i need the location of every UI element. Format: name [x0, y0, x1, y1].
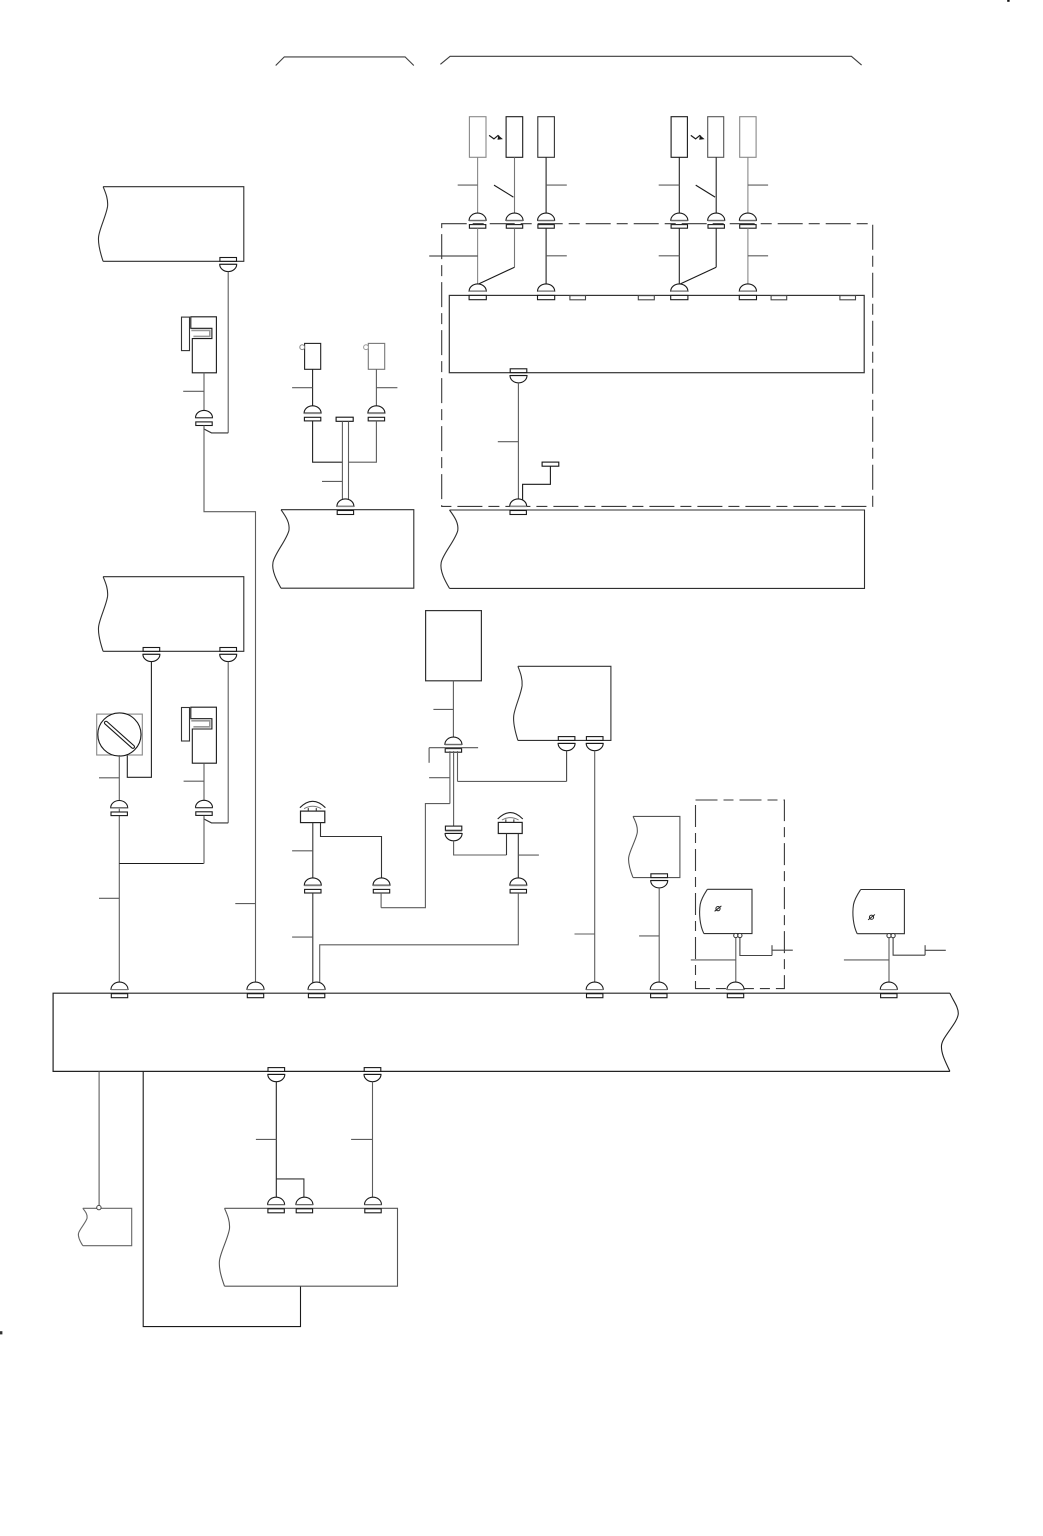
connector (box top edge)	[671, 284, 688, 300]
wire (pin 2)	[453, 751, 455, 826]
wire	[320, 893, 519, 983]
junction tick	[429, 255, 477, 257]
wire	[312, 893, 314, 983]
ground point box G2 (wavy edge)	[857, 890, 904, 934]
component box C (wavy edge)	[518, 666, 611, 740]
wire	[566, 751, 568, 782]
junction tick	[433, 708, 453, 710]
wire (junction)	[119, 863, 203, 865]
wire (fuse lead)	[678, 157, 680, 213]
wire (pin 1)	[449, 751, 451, 804]
wire	[380, 893, 382, 908]
wire	[893, 938, 925, 956]
wire	[506, 834, 508, 856]
terminal eyelets	[887, 934, 895, 938]
connector (in-line)	[196, 800, 213, 815]
connector (box bottom edge)	[558, 737, 575, 751]
connector (box bottom edge)	[143, 648, 160, 662]
junction tick	[429, 777, 450, 779]
terminal tab	[771, 296, 787, 300]
wire	[658, 888, 660, 983]
connector (in-line)	[469, 213, 486, 228]
junction tick	[546, 184, 567, 186]
fuse F3	[538, 117, 555, 158]
intermittent-fault zigzag arrow	[489, 135, 503, 140]
wire (pair)	[341, 421, 343, 499]
junction block 2 dashed outline	[696, 800, 785, 989]
junction tick	[659, 184, 680, 186]
component box G (wavy edge)	[225, 1208, 398, 1286]
wire	[203, 763, 205, 800]
terminal tab	[638, 296, 654, 300]
noise filter NF2	[498, 813, 523, 834]
junction tick	[351, 1138, 372, 1140]
component box B (wavy edge)	[103, 577, 244, 652]
ground mark	[868, 915, 875, 920]
page mark	[0, 1332, 2, 1334]
wire (fuse lead)	[477, 157, 479, 213]
connector (box top edge)	[510, 499, 527, 515]
connector (bus bottom edge)	[364, 1068, 381, 1082]
connector (box top edge)	[296, 1197, 313, 1213]
wire	[517, 834, 519, 878]
ground mark	[715, 906, 722, 911]
junction tick	[376, 387, 397, 389]
page mark top	[1008, 0, 1010, 1]
wire (fuse lead)	[514, 157, 516, 213]
junction tick	[99, 777, 119, 779]
intermittent-fault zigzag arrow	[691, 135, 705, 140]
wire	[452, 681, 454, 737]
connector (in-line)	[445, 737, 462, 752]
connector (box bottom edge)	[510, 369, 527, 383]
wire (fuse lead)	[747, 157, 749, 213]
connector (bus top edge)	[111, 982, 128, 998]
switch blade SW3	[479, 267, 515, 284]
component box A (wavy edge)	[103, 187, 244, 262]
connector (in-line)	[111, 801, 128, 816]
ground point box G1 (wavy edge)	[704, 889, 752, 933]
wire	[321, 823, 382, 878]
component box E (wavy edge)	[633, 816, 680, 877]
connector (box top edge)	[268, 1197, 285, 1213]
connector (box top edge)	[337, 499, 354, 515]
junction tick	[256, 1138, 276, 1140]
junction tick	[748, 184, 768, 186]
junction tick	[546, 255, 567, 257]
connector (box top edge)	[365, 1197, 382, 1213]
fusible link FL1	[182, 317, 217, 373]
junction tick	[235, 903, 255, 905]
wire	[888, 938, 890, 983]
connector (box bottom edge)	[220, 258, 237, 272]
switch blade SW1	[494, 185, 513, 197]
connector (bus bottom edge)	[268, 1068, 285, 1082]
junction tick	[659, 255, 680, 257]
junction tick	[322, 480, 342, 482]
ignition switch contact circle	[98, 713, 141, 756]
connector (bus top edge)	[650, 982, 667, 998]
wire	[313, 421, 343, 462]
connector (bus top edge)	[880, 982, 897, 998]
connector (box bottom edge)	[651, 874, 668, 888]
junction tick	[458, 184, 478, 186]
connector (in-line)	[506, 213, 523, 228]
connector (bus top edge)	[247, 982, 264, 998]
junction block dashed outline	[442, 224, 873, 507]
relay/fuse box body	[449, 295, 864, 372]
junction tick	[498, 441, 519, 443]
connector (in-line, facing down)	[445, 826, 462, 841]
wire (branch)	[276, 1179, 304, 1197]
connector (in-line)	[510, 878, 527, 893]
connector (in-line)	[671, 213, 688, 228]
wire	[143, 1071, 300, 1326]
wire	[275, 1082, 277, 1198]
wire	[735, 938, 737, 983]
junction tick	[292, 850, 313, 852]
connector (in-line)	[708, 213, 725, 228]
connector (in-line)	[304, 878, 321, 893]
wire	[98, 1071, 100, 1205]
wire	[349, 421, 377, 462]
connector (box top edge)	[469, 284, 486, 300]
fuse F5	[708, 117, 724, 158]
junction tick	[844, 959, 889, 961]
connector (in-line)	[368, 406, 385, 421]
connector (box bottom edge)	[586, 737, 603, 751]
connector (in-line)	[538, 213, 555, 228]
connector (in-line)	[304, 406, 321, 421]
wire	[381, 804, 450, 908]
junction tick	[748, 255, 768, 257]
junction tick	[691, 959, 736, 961]
wire	[372, 1082, 374, 1198]
connector (in-line)	[196, 410, 213, 425]
wire	[545, 228, 547, 284]
wire	[517, 383, 519, 499]
fuse F6	[740, 117, 756, 158]
wire (pin 3)	[457, 751, 459, 781]
connector (bus top edge)	[586, 982, 603, 998]
wire	[454, 841, 507, 855]
wire	[514, 228, 516, 267]
wire	[477, 228, 479, 284]
noise filter NF1	[300, 801, 326, 822]
junction tick	[518, 854, 539, 856]
terminal eyelet	[97, 1205, 101, 1209]
harness group brace (left)	[276, 57, 414, 66]
connector (box top edge)	[739, 284, 756, 300]
shield stub	[429, 748, 478, 763]
terminal bar	[542, 462, 559, 466]
stub terminal	[925, 945, 946, 955]
component box H (wavy edge)	[281, 510, 414, 589]
connector (box top edge)	[538, 284, 555, 300]
junction tick	[292, 936, 313, 938]
junction tick	[184, 780, 204, 782]
wire	[203, 373, 205, 411]
fuse F4	[671, 117, 687, 158]
wire	[227, 272, 229, 433]
connector (in-line)	[739, 213, 756, 228]
ignition switch key slot	[106, 723, 133, 747]
junction tick	[575, 933, 595, 935]
wire	[740, 938, 772, 956]
terminal tab	[840, 296, 856, 300]
junction tick	[292, 387, 313, 389]
junction tick	[639, 935, 659, 937]
switch blade SW2	[696, 185, 715, 197]
terminal tab	[570, 296, 586, 300]
terminal bar	[336, 417, 353, 421]
harness group brace (right)	[440, 56, 861, 65]
wire	[227, 662, 229, 823]
wire	[375, 369, 377, 406]
junction tick	[99, 897, 119, 899]
fusible link FL2	[182, 707, 217, 763]
wire (pair)	[348, 421, 350, 499]
connector (box bottom edge)	[220, 648, 237, 662]
cowl wire box (wavy edge)	[450, 510, 865, 588]
wire	[203, 816, 205, 864]
junction tick	[183, 390, 204, 392]
connector (bus top edge)	[308, 982, 325, 998]
wire	[747, 228, 749, 284]
wire (fuse lead)	[715, 157, 717, 213]
terminal eyelets	[734, 933, 742, 937]
horn H1 body	[300, 343, 321, 369]
wire (merge diagonal)	[204, 427, 228, 433]
component box F (wavy edge)	[83, 1208, 132, 1245]
wire	[118, 755, 120, 983]
fuse F2	[506, 117, 523, 158]
wire	[312, 369, 314, 406]
wire	[678, 228, 680, 284]
wire	[594, 751, 596, 983]
wire	[204, 426, 256, 984]
fuse F1	[469, 117, 486, 158]
main harness bus (wavy right edge)	[53, 993, 950, 1071]
stub terminal	[772, 945, 793, 955]
wire	[127, 662, 151, 778]
connector (in-line)	[373, 878, 390, 893]
ignition switch body	[97, 714, 143, 755]
connector (bus top edge)	[727, 982, 744, 998]
wire	[715, 228, 717, 267]
wire	[523, 466, 551, 500]
horn H2 body	[364, 343, 385, 369]
wire	[312, 823, 314, 878]
wire (fuse lead)	[545, 157, 547, 213]
component box D	[426, 611, 482, 681]
wire	[458, 780, 567, 782]
switch blade SW4	[680, 267, 716, 284]
wire (merge diagonal)	[204, 817, 228, 823]
